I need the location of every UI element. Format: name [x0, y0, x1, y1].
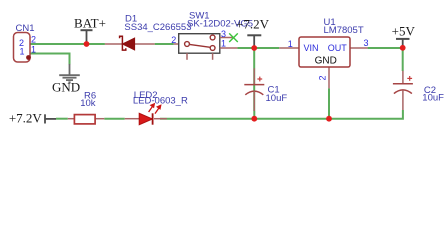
svg-text:CN1: CN1: [16, 23, 35, 34]
svg-text:VIN: VIN: [304, 43, 319, 53]
wire +5V node down to C2: [402, 48, 404, 71]
svg-text:+7.2V: +7.2V: [236, 16, 270, 31]
diode D1: [105, 36, 155, 50]
wire D1 to SW1: [155, 43, 174, 45]
svg-text:2: 2: [318, 75, 328, 80]
junction node +7.2V: [251, 45, 257, 51]
svg-text:10uF: 10uF: [266, 93, 288, 104]
wire CN1 pin1 to GND: [30, 54, 70, 65]
svg-text:1: 1: [31, 44, 36, 54]
svg-text:BAT+: BAT+: [74, 16, 106, 31]
svg-text:+5V: +5V: [392, 23, 416, 38]
wire C1 bottom to rail: [253, 111, 255, 119]
junction node C1/rail: [251, 116, 257, 122]
wire R6 to LED2: [104, 118, 124, 120]
wire U1 GND pin down to rail: [328, 88, 330, 118]
junction node +5V: [400, 45, 406, 51]
switch SW1: [174, 34, 238, 60]
wire U1 OUT to +5V node: [368, 47, 403, 49]
svg-text:3: 3: [363, 38, 368, 48]
resistor R6: [68, 115, 105, 124]
power flag +5V: [392, 23, 416, 48]
svg-text:1: 1: [288, 39, 293, 49]
capacitor C1: [244, 68, 264, 111]
svg-text:OUT: OUT: [328, 43, 348, 53]
wire node +7.2V down to C1: [253, 48, 255, 111]
svg-text:GND: GND: [315, 55, 337, 66]
svg-text:1: 1: [20, 47, 25, 57]
regulator U1: [279, 37, 367, 88]
wire CN1 pin2 to D1: [30, 43, 105, 45]
wire +7.2V flag to R6: [56, 118, 68, 120]
power flag +7.2V bottom: [9, 110, 56, 125]
ground: [59, 64, 80, 82]
LED LED2: [125, 104, 167, 125]
svg-text:LED-0603_R: LED-0603_R: [133, 96, 188, 107]
svg-text:+7.2V: +7.2V: [9, 110, 43, 125]
svg-text:GND: GND: [52, 80, 80, 95]
junction node U1 GND/rail: [326, 116, 332, 122]
svg-text:LM7805T: LM7805T: [324, 25, 364, 36]
svg-text:SS34_C266553: SS34_C266553: [124, 22, 191, 33]
svg-text:2: 2: [31, 34, 36, 44]
wire SW1 pin1 to U1 VIN: [237, 47, 279, 49]
connector CN1: [14, 33, 31, 63]
svg-text:10uF: 10uF: [422, 92, 444, 103]
power flag +7.2V top: [236, 16, 270, 48]
svg-text:3: 3: [221, 29, 226, 39]
power flag BAT+: [74, 16, 106, 45]
svg-text:10k: 10k: [80, 98, 96, 109]
svg-text:1: 1: [221, 39, 226, 49]
no-connect X on SW1 pin3: [229, 33, 238, 42]
junction node BAT+: [84, 41, 90, 47]
svg-text:2: 2: [171, 35, 176, 45]
capacitor C2: [393, 71, 413, 110]
wire bottom GND rail: [160, 110, 403, 119]
